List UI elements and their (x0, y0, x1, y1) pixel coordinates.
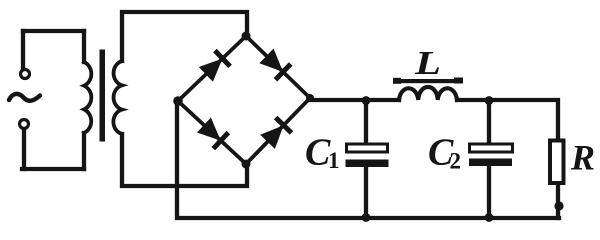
secondary winding (113, 61, 122, 134)
terminal upper (21, 70, 30, 79)
wire primary loop top (23, 29, 84, 33)
svg-text:L: L (414, 45, 441, 82)
node bridge left vertex (173, 96, 183, 106)
wire primary loop bottom (22, 167, 84, 171)
node C1 top junction (362, 96, 371, 105)
diode D4 bottom-to-right (260, 118, 291, 149)
wire bridge edge left-top (178, 36, 246, 101)
wire resistor bottom lead (556, 185, 560, 218)
wire primary loop left upper (21, 31, 25, 68)
wire positive rail right segment and drop to resistor (457, 100, 558, 138)
node C1 bottom junction (362, 213, 371, 222)
diode D3 left-to-bottom (197, 118, 228, 149)
node bridge right vertex (306, 94, 314, 102)
transformer core (100, 50, 106, 142)
label C2 (428, 132, 461, 174)
wire C2 bottom lead (487, 165, 491, 218)
node resistor bottom junction (554, 201, 563, 210)
svg-text:R: R (570, 138, 595, 178)
wire secondary top lead to bridge (122, 12, 247, 61)
wire secondary bottom lead to bridge (122, 134, 247, 186)
label C1 (305, 132, 340, 174)
wire bridge edge left-bottom (178, 101, 246, 164)
wire primary loop left lower (22, 130, 26, 169)
resistor R body (550, 141, 564, 184)
wire primary loop right lower (82, 133, 86, 169)
diode D2 top-to-right (259, 49, 290, 80)
label L underline (393, 78, 463, 84)
terminal lower (20, 120, 29, 129)
wire C2 top lead (487, 100, 491, 144)
wire negative rail (left vertex down and along bottom) (177, 101, 559, 218)
primary winding (84, 62, 91, 133)
node C2 top junction (485, 96, 494, 105)
inductor L (399, 87, 457, 100)
ac source tilde (9, 94, 40, 101)
capacitor C1 (346, 144, 389, 167)
node bridge bottom vertex (242, 160, 251, 169)
wire C1 top lead (364, 100, 368, 144)
wire primary loop right upper (82, 31, 86, 62)
node bridge top vertex (242, 32, 251, 41)
svg-text:2: 2 (450, 149, 462, 174)
wire C1 bottom lead (364, 166, 368, 218)
node C2 bottom junction (485, 213, 494, 222)
diode D1 left-to-top (199, 51, 230, 82)
capacitor C2 (469, 144, 513, 166)
wire bridge edge top-right (246, 36, 310, 98)
svg-text:1: 1 (328, 148, 340, 173)
wire positive rail left segment (310, 98, 399, 102)
wire bridge edge bottom-right (246, 98, 310, 164)
